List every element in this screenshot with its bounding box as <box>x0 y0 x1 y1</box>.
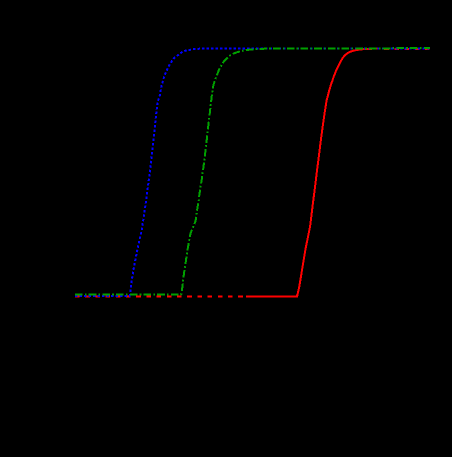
red dashed sigmoid curve <box>75 49 430 297</box>
blue dotted sigmoid curve <box>75 48 430 296</box>
green dash-dot sigmoid curve <box>75 48 430 295</box>
red solid fit segment <box>246 49 374 297</box>
